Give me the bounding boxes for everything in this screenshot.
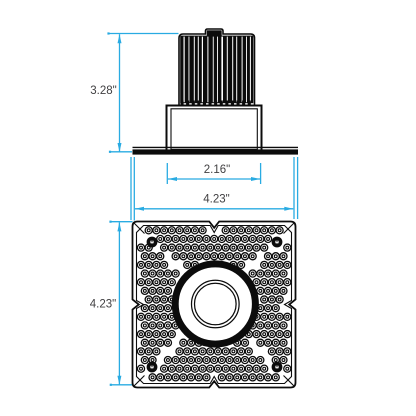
lens inner circle B [195, 283, 237, 325]
svg-text:4.23": 4.23" [90, 299, 116, 311]
svg-text:4.23": 4.23" [203, 194, 229, 206]
heatsink feet row [181, 101, 251, 106]
trim plate inner border line [137, 226, 292, 384]
driver body inner line [171, 109, 257, 150]
heatsink fins block [179, 29, 255, 106]
driver body outer [167, 106, 262, 153]
flange top line [133, 146, 299, 148]
trim plate outer square outline [133, 222, 296, 388]
corner screws [147, 237, 283, 373]
svg-text:2.16": 2.16" [204, 164, 230, 176]
lens inner circle A [192, 280, 240, 328]
svg-text:3.28": 3.28" [90, 85, 116, 97]
dimension 4.23 trim height [90, 221, 133, 386]
dimension 3.28 height side view [90, 32, 178, 152]
lens outer ring [175, 264, 255, 344]
corner diagonal marks [134, 223, 294, 386]
perforation hole pattern [137, 227, 290, 381]
dimension 2.16 body width [167, 163, 260, 184]
flange bar [133, 149, 299, 154]
dimension 4.23 flange width [131, 157, 298, 221]
